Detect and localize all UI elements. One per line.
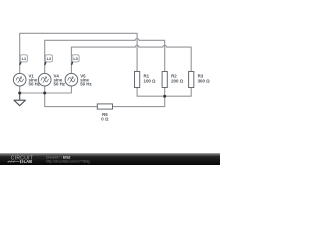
label R2 200 Ohm — [171, 74, 184, 84]
footer credit text — [46, 155, 90, 163]
wire resistor bottom rail R1-R3 — [137, 88, 191, 97]
voltage source V5 — [65, 73, 78, 86]
svg-text:0 Ω: 0 Ω — [101, 117, 109, 122]
svg-text:200 Ω: 200 Ω — [171, 78, 184, 83]
svg-text:L3: L3 — [73, 57, 77, 61]
wire node A drop to R5 left — [45, 93, 98, 107]
svg-text:50 Hz: 50 Hz — [54, 81, 66, 86]
svg-text:L1: L1 — [22, 57, 26, 61]
resistor R2 — [162, 72, 167, 88]
label R3 300 Ohm — [198, 74, 211, 84]
svg-text:LAB: LAB — [24, 159, 33, 164]
resistor R3 — [189, 72, 194, 88]
node flag L1 — [20, 55, 28, 65]
voltage source V4 — [38, 73, 51, 86]
wire R5 right to R2 bottom rail — [113, 96, 165, 106]
svg-text:L2: L2 — [47, 57, 51, 61]
label R1 100 Ohm — [144, 74, 157, 84]
wire V4 bottom stub — [44, 86, 46, 93]
wire R2 bottom stub — [164, 88, 166, 97]
resistor R5 — [97, 104, 112, 109]
label V4 sine 50 Hz — [54, 74, 66, 87]
wire ground rail V1-V4-V5 bottoms — [20, 86, 72, 93]
voltage source V1 — [13, 73, 26, 86]
svg-text:100 Ω: 100 Ω — [144, 78, 157, 83]
wire V1 top to R1 top — [20, 33, 137, 73]
footer bar — [0, 153, 220, 165]
node flag L2 — [45, 55, 53, 65]
node junction dot R2 bottom — [163, 95, 166, 98]
resistor R1 — [135, 72, 140, 88]
CircuitLab logo — [8, 156, 34, 165]
ground — [14, 93, 25, 106]
node junction dot V4 bottom — [43, 92, 46, 95]
label R5 0 Ohm — [101, 112, 109, 122]
node junction dot V1/ground — [18, 92, 21, 95]
wire V4 top to R2 top (hop over R1 wire) — [45, 39, 165, 74]
svg-text:300 Ω: 300 Ω — [198, 78, 211, 83]
svg-text:50 Hz: 50 Hz — [80, 81, 92, 86]
label V5 sine 50 Hz — [80, 74, 92, 87]
wire V5 top to R3 top (hops over R1 and R2 wires) — [71, 45, 191, 73]
svg-text:http://circuitlab.com/c77t9dg: http://circuitlab.com/c77t9dg — [46, 160, 90, 164]
node flag L3 — [72, 55, 80, 65]
label V1 sine 50 Hz — [29, 74, 41, 87]
